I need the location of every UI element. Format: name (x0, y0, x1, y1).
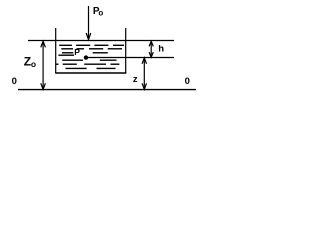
tank right wall (125, 28, 127, 73)
dimension h arrowhead bottom (149, 52, 153, 57)
tank bottom (55, 72, 126, 74)
pressure arrow P0 head (86, 33, 91, 40)
svg-text:P: P (74, 47, 80, 57)
pressure arrow P0 shaft (88, 6, 90, 39)
liquid surface line (28, 40, 174, 42)
dimension h arrowhead top (149, 41, 153, 46)
tank left wall (55, 28, 57, 73)
svg-text:o: o (31, 59, 36, 69)
water shading dashes (56, 45, 124, 68)
dimension Z0 line (42, 42, 44, 90)
dimension z arrowhead bottom (142, 83, 146, 89)
svg-text:o: o (98, 9, 103, 18)
dimension Z0 arrowhead top (41, 41, 46, 47)
dimension Z0 arrowhead bottom (41, 83, 46, 89)
svg-text:h: h (158, 44, 164, 55)
svg-text:0: 0 (12, 76, 17, 87)
dimension h line (150, 42, 152, 58)
svg-text:z: z (133, 74, 138, 85)
dimension z arrowhead top (142, 58, 146, 64)
point P dot (84, 55, 88, 59)
svg-text:0: 0 (185, 76, 190, 87)
P level line (86, 57, 174, 59)
baseline datum 0-0 (18, 89, 196, 91)
dimension z line (143, 58, 145, 89)
